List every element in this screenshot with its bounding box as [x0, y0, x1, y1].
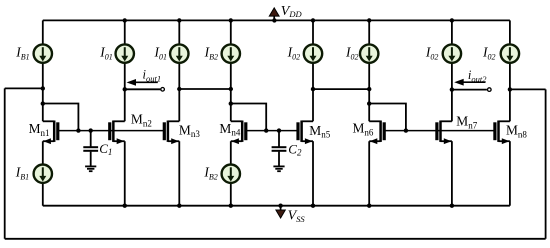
transistor Mn7 source arrow	[444, 138, 452, 144]
node dot gate A1	[76, 128, 80, 132]
capacitor C1 bottom lead	[90, 152, 92, 167]
svg-text:Mn3: Mn3	[179, 122, 200, 139]
node dot Mn6 diode	[367, 101, 371, 105]
transistor Mn6 gate bar	[383, 122, 386, 140]
current source IB1 bottom	[34, 165, 52, 183]
current source I02 fourth	[501, 44, 519, 62]
svg-text:iout1: iout1	[143, 68, 162, 84]
supply VDD symbol	[269, 8, 279, 20]
svg-text:C2: C2	[288, 141, 302, 157]
transistor Mn1 source arrow	[43, 138, 51, 144]
node dots VSS rail	[123, 204, 455, 208]
svg-text:I01: I01	[99, 44, 113, 61]
wire column Mn7/I02 lower	[451, 141, 453, 206]
transistor Mn7 drain lead	[441, 120, 452, 122]
transistor Mn6 drain lead	[369, 120, 380, 122]
svg-text:C1: C1	[99, 141, 112, 157]
transistor Mn8 channel	[497, 121, 500, 142]
svg-text:I02: I02	[482, 44, 496, 61]
svg-text:I02: I02	[345, 44, 359, 61]
svg-text:IB1: IB1	[15, 165, 29, 182]
capacitor C1 top plate	[83, 146, 98, 148]
transistor Mn5 source arrow	[305, 138, 313, 144]
wire feedback right horizontal	[510, 88, 546, 90]
transistor Mn7 source lead	[441, 140, 452, 142]
transistor Mn6 source arrow	[370, 138, 378, 144]
wire feedback bottom	[5, 238, 546, 240]
wire gate line Mn4-Mn5	[246, 130, 298, 132]
transistor Mn5 drain lead	[302, 120, 313, 122]
node dots Mn5-Mn6 link	[311, 87, 372, 91]
svg-text:Mn5: Mn5	[309, 123, 330, 140]
wire column Mn5/I02 upper	[312, 20, 314, 121]
node dot gate A2 (C1)	[89, 128, 93, 132]
current source I01 second	[170, 44, 188, 62]
ground under C1	[85, 165, 96, 167]
current source I02 second	[360, 44, 378, 62]
transistor Mn8 gate bar	[493, 122, 496, 140]
arrow iout2	[454, 79, 485, 86]
node dots top rail	[123, 18, 455, 22]
wire Mn6 drain-gate bracket	[369, 104, 406, 131]
wire feedback right vertical	[545, 89, 547, 238]
wire feedback left vertical	[4, 88, 6, 238]
wire column Mn7/I02 upper	[451, 20, 453, 121]
transistor Mn6 channel	[379, 121, 382, 142]
wire column Mn3/I01 upper	[178, 20, 180, 121]
wire gate line Mn6-Mn7-Mn8	[384, 130, 495, 132]
wire column Mn4/IB2 lower	[230, 141, 232, 206]
current source I01 first	[116, 44, 134, 62]
transistor Mn3 channel	[167, 121, 170, 142]
transistor Mn1 source lead	[43, 140, 54, 142]
capacitor C1 bottom plate	[83, 150, 98, 152]
wire iout2 tap	[452, 89, 487, 91]
svg-text:I02: I02	[425, 44, 439, 61]
transistor Mn4 channel	[241, 121, 244, 142]
transistor Mn7 gate bar	[435, 122, 438, 140]
transistor Mn7 channel	[439, 121, 442, 142]
wire column Mn2/I01 upper	[124, 20, 126, 121]
transistor Mn8 source lead	[499, 140, 510, 142]
wire column Mn3/I01 lower	[178, 141, 180, 206]
transistor Mn2 gate bar	[108, 122, 111, 140]
ground under C2	[273, 165, 284, 167]
wire column Mn2/I01 lower	[124, 141, 126, 206]
svg-text:Mn2: Mn2	[131, 112, 152, 129]
arrow iout1	[127, 79, 158, 86]
transistor Mn5 gate bar	[296, 122, 299, 140]
capacitor C1 top lead	[90, 131, 92, 147]
capacitor C2 bottom lead	[278, 152, 280, 167]
svg-text:Mn7: Mn7	[456, 113, 477, 130]
wire column Mn8/I02 upper	[509, 20, 511, 121]
transistor Mn1 drain lead	[43, 120, 54, 122]
svg-text:IB1: IB1	[15, 44, 29, 61]
current source I02 first	[304, 44, 322, 62]
transistor Mn1 channel	[53, 121, 56, 142]
wire VSS bottom rail	[43, 205, 510, 207]
wire column Mn1/IB1 lower	[42, 141, 44, 206]
svg-text:Mn1: Mn1	[29, 121, 50, 138]
node dot gate C1 node	[404, 128, 408, 132]
output terminal iout2	[488, 88, 492, 92]
transistor Mn3 source lead	[168, 140, 179, 142]
transistor Mn4 source lead	[231, 140, 242, 142]
transistor Mn4 drain lead	[231, 120, 242, 122]
node dot Mn4 diode	[229, 101, 233, 105]
current source IB2 top	[222, 44, 240, 62]
transistor Mn3 drain lead	[168, 120, 179, 122]
output terminal iout1	[161, 88, 165, 92]
transistor Mn8 drain lead	[499, 120, 510, 122]
node dot iout1	[123, 87, 127, 91]
node dot feedback right	[508, 87, 512, 91]
transistor Mn4 source arrow	[231, 138, 239, 144]
svg-text:Mn6: Mn6	[353, 121, 374, 138]
node dot iout2	[450, 87, 454, 91]
wire iout1 tap	[125, 88, 161, 90]
node dots Mn3-Mn4 link	[177, 87, 233, 91]
capacitor C2 top lead	[278, 131, 280, 147]
svg-text:iout2: iout2	[468, 68, 487, 84]
wire column Mn6/I02 lower	[368, 141, 370, 206]
transistor Mn2 source arrow	[117, 138, 125, 144]
transistor Mn4 gate bar	[244, 122, 247, 140]
wire column Mn4/IB2 upper	[230, 20, 232, 121]
capacitor C2 top plate	[272, 146, 287, 148]
transistor Mn3 gate bar	[163, 122, 166, 140]
wire Mn3 drain to Mn4 drain	[179, 88, 231, 90]
transistor Mn2 channel	[112, 121, 115, 142]
svg-text:VSS: VSS	[288, 208, 306, 224]
node dot Mn1 diode	[41, 101, 45, 105]
svg-text:Mn8: Mn8	[506, 122, 527, 139]
current source IB1 top	[34, 44, 52, 62]
current source IB2 bottom	[222, 165, 240, 183]
wire VDD top rail	[43, 19, 510, 21]
transistor Mn2 source lead	[113, 140, 124, 142]
wire column Mn5/I02 lower	[312, 141, 314, 206]
wire column Mn1/IB1 upper	[42, 20, 44, 121]
transistor Mn5 channel	[300, 121, 303, 142]
svg-text:VDD: VDD	[281, 4, 303, 19]
wire gate line Mn1-Mn2-Mn3	[58, 130, 165, 132]
wire Mn4 drain-gate bracket	[231, 104, 266, 131]
transistor Mn8 source arrow	[502, 138, 510, 144]
supply VSS symbol	[276, 206, 285, 218]
svg-text:IB2: IB2	[204, 44, 218, 61]
node dot gate B1	[264, 128, 268, 132]
wire Mn1 drain-gate bracket	[43, 104, 79, 131]
svg-text:I01: I01	[154, 44, 168, 61]
wire column Mn8/I02 lower	[509, 141, 511, 206]
svg-text:Mn4: Mn4	[219, 121, 240, 138]
transistor Mn5 source lead	[302, 140, 313, 142]
transistor Mn2 drain lead	[113, 120, 124, 122]
transistor Mn3 source arrow	[171, 138, 179, 144]
current source I02 third	[443, 44, 461, 62]
wire feedback left horizontal	[5, 87, 43, 89]
wire Mn5 drain to Mn6 drain	[313, 88, 369, 90]
node dot gate B2 (C2)	[277, 128, 281, 132]
transistor Mn6 source lead	[369, 140, 380, 142]
svg-text:I02: I02	[287, 44, 301, 61]
svg-text:IB2: IB2	[203, 165, 217, 182]
capacitor C2 bottom plate	[272, 150, 287, 152]
node dot feedback left	[41, 86, 45, 90]
transistor Mn1 gate bar	[56, 122, 59, 140]
wire column Mn6/I02 upper	[368, 20, 370, 121]
